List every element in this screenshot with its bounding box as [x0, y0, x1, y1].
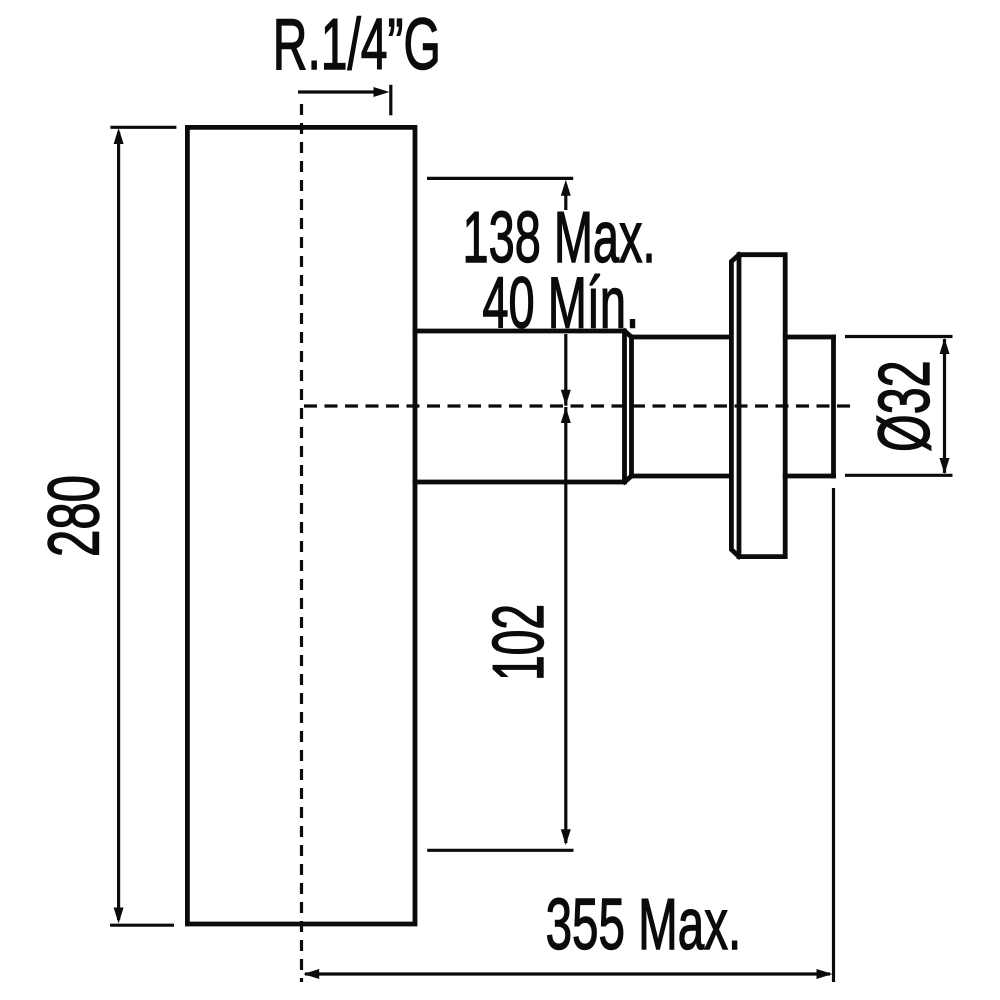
- dimension diameter arrowhead down: [940, 458, 950, 474]
- tube section 2 bottom edge left of flange: [632, 474, 732, 479]
- dimension 102 extension line bottom: [427, 849, 573, 852]
- dimension 138 arrowhead down at centerline: [561, 390, 571, 406]
- extension line right for 355: [832, 488, 835, 982]
- tube step chamfer bottom: [625, 476, 632, 482]
- svg-text:102: 102: [479, 604, 559, 681]
- dimension R.1/4 arrowhead right: [374, 87, 390, 97]
- tube section 1 outline: [415, 331, 625, 482]
- dimension 138 extension line top: [427, 177, 573, 180]
- vertical dashed centerline: [300, 104, 303, 982]
- dimension 280 arrowhead down: [114, 908, 124, 924]
- dimension 138 arrow tail: [564, 194, 567, 210]
- dimension 102 arrowhead up at centerline: [561, 407, 571, 423]
- dimension R.1/4 end tick: [389, 85, 392, 116]
- tube section 2 top edge left of flange: [632, 335, 732, 340]
- tube section 2 end cap: [629, 337, 634, 476]
- dimension 355 arrowhead left: [303, 969, 319, 979]
- svg-text:40 Mín.: 40 Mín.: [482, 264, 639, 344]
- dimension 355 arrowhead right: [817, 969, 833, 979]
- dimension 280 line: [117, 132, 120, 920]
- dimension 138 lower line: [564, 334, 567, 406]
- dimension 355 line: [305, 972, 830, 975]
- dimension 102 arrowhead down: [561, 829, 571, 845]
- tube section 2 top edge right of flange: [785, 335, 833, 340]
- dimension diameter extension line bottom: [845, 474, 953, 477]
- dimension 138 arrowhead up: [561, 180, 571, 196]
- tube step chamfer top: [625, 331, 632, 337]
- body rectangle (valve body): [187, 127, 415, 924]
- dimension 280 extension tick top: [110, 126, 176, 129]
- dimension 102 line: [564, 407, 567, 843]
- dimension diameter extension line top: [845, 335, 953, 338]
- dimension diameter arrowhead up: [940, 338, 950, 354]
- flange side face: [731, 255, 739, 557]
- svg-text:R.1/4”G: R.1/4”G: [273, 5, 441, 85]
- dimension 280 arrowhead up: [114, 128, 124, 144]
- svg-text:280: 280: [35, 475, 115, 557]
- dimension 280 extension tick bottom: [110, 924, 174, 927]
- svg-text:Ø32: Ø32: [865, 360, 945, 452]
- tube section 2 bottom edge right of flange: [785, 474, 833, 479]
- flange front face: [739, 255, 785, 557]
- tube right end cap: [831, 337, 836, 476]
- dimension R.1/4 line: [298, 90, 376, 93]
- svg-text:355 Max.: 355 Max.: [546, 885, 742, 965]
- horizontal dashed centerline: [304, 404, 855, 407]
- dimension diameter line: [943, 339, 946, 473]
